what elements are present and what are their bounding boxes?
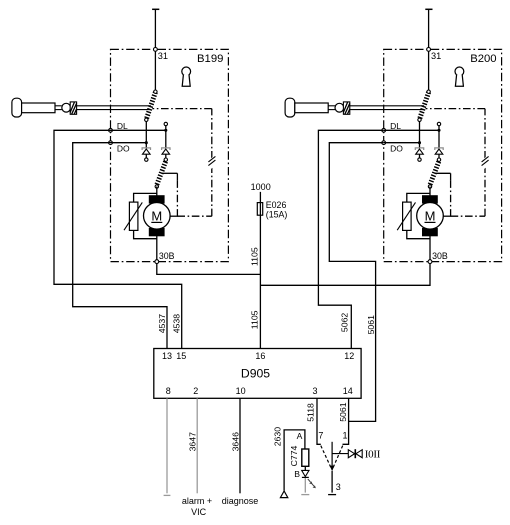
svg-text:10: 10 <box>236 386 246 396</box>
junction on DO wire <box>418 141 421 144</box>
wire C774 to LED <box>304 466 306 470</box>
junction on DO wire <box>145 141 148 144</box>
30B terminal circle <box>428 260 432 264</box>
contact diode right <box>165 130 167 148</box>
switch detent symbol line <box>332 453 348 455</box>
wire 1105 main: fuse to D905 pin 16 <box>259 192 261 349</box>
DO wire <box>384 142 420 144</box>
motor top lead <box>156 187 158 197</box>
pin 31 terminal circle <box>154 48 158 52</box>
LED emission arrows <box>308 479 316 488</box>
contact diode right <box>438 130 440 148</box>
svg-text:DO: DO <box>390 144 403 154</box>
svg-text:30B: 30B <box>159 251 175 261</box>
svg-text:30B: 30B <box>432 251 448 261</box>
linkage break symbol <box>478 157 491 170</box>
DL wire <box>384 129 440 131</box>
svg-text:12: 12 <box>344 351 354 361</box>
key cylinder assembly <box>12 98 22 117</box>
control unit D905 box <box>154 349 361 399</box>
contact diode left <box>415 148 423 150</box>
svg-text:5061: 5061 <box>366 315 376 334</box>
wire supply to B199 pin 31 <box>154 9 156 47</box>
svg-text:B199: B199 <box>197 53 223 65</box>
motor bottom lead <box>429 235 431 260</box>
junction on DL wire <box>437 129 440 132</box>
motor switch blade (hatched) <box>164 158 167 161</box>
DL terminal circle <box>109 128 113 132</box>
key symbol (keyhole) <box>182 67 191 76</box>
component C774 (resistor body) <box>302 449 309 466</box>
svg-text:A: A <box>297 431 303 441</box>
key cylinder hatched coupler <box>343 102 349 114</box>
terminal 3 end bar <box>328 494 336 496</box>
svg-text:16: 16 <box>255 351 265 361</box>
wire blade to DL/DO column <box>145 121 147 148</box>
motor M with brushes <box>423 196 438 203</box>
svg-text:15: 15 <box>176 351 186 361</box>
wire from pin 14 of D905 <box>343 398 349 444</box>
LED bottom lead (gray) <box>304 478 306 493</box>
wire 1105: B200 30B down to fuse node <box>260 264 430 286</box>
DO terminal circle <box>109 141 113 145</box>
svg-text:M: M <box>425 209 436 224</box>
wire pin31 to switch blade <box>154 51 156 90</box>
svg-text:3: 3 <box>312 386 317 396</box>
linkage break symbol <box>205 157 218 170</box>
wire 4537: B199 DO to D905 pin 13 <box>73 143 167 349</box>
svg-text:31: 31 <box>158 51 168 61</box>
svg-text:C774: C774 <box>289 445 299 466</box>
svg-text:3647: 3647 <box>187 432 197 451</box>
wire 4538: B199 DL to D905 pin 15 <box>54 130 182 348</box>
svg-text:1000: 1000 <box>251 182 271 192</box>
pin 8 wire end bar <box>164 494 171 496</box>
LED lead end bar <box>301 494 309 496</box>
svg-text:1105: 1105 <box>250 310 260 329</box>
key cylinder assembly <box>285 98 295 117</box>
lock unit B200 outer housing dash-dot box <box>384 49 502 261</box>
30B terminal circle <box>155 260 159 264</box>
svg-text:3: 3 <box>336 482 341 492</box>
junction on DL wire <box>164 129 167 132</box>
svg-text:VIC: VIC <box>191 507 207 517</box>
svg-text:B: B <box>294 469 300 479</box>
wire 5062: B200 DL to D905 pin 12 <box>318 130 383 348</box>
switch actuator stem with arrow <box>331 442 333 466</box>
lock unit B199 outer housing dash-dot box <box>111 49 229 261</box>
svg-text:M: M <box>151 209 162 224</box>
svg-text:8: 8 <box>166 386 171 396</box>
wire 3646 from pin 10 to diagnose <box>239 398 241 493</box>
supply terminal bar right <box>425 8 432 10</box>
wire pin31 to switch blade <box>428 51 430 90</box>
svg-text:4537: 4537 <box>157 314 167 333</box>
svg-text:D905: D905 <box>241 366 270 380</box>
DL wire <box>111 129 167 131</box>
svg-text:5061: 5061 <box>338 402 348 421</box>
svg-text:alarm +: alarm + <box>182 496 212 506</box>
LED diode of C774 <box>302 470 309 476</box>
mechanical linkage (dash-dot) <box>162 172 178 174</box>
key cylinder hatched coupler <box>70 102 76 114</box>
fuse E026 (15A) <box>257 203 262 216</box>
DO wire <box>111 142 147 144</box>
lock rod (double line) <box>350 105 424 107</box>
switch movable contact from 7 (dashed) <box>321 446 332 469</box>
wire supply to B200 pin 31 <box>428 9 430 47</box>
lock rod (double line) <box>77 105 151 107</box>
wire 5061: B200 DO to D905 pin 14 <box>329 143 383 422</box>
svg-text:5118: 5118 <box>306 403 316 422</box>
wire 3647 from pin 2 to alarm/VIC <box>196 398 198 493</box>
svg-text:E026: E026 <box>266 200 287 210</box>
DL terminal circle <box>382 128 386 132</box>
supply terminal bar left <box>152 8 159 10</box>
svg-text:1: 1 <box>342 431 347 441</box>
motor bottom lead <box>156 235 158 260</box>
wire 1105: B199 30B down to fuse node <box>157 264 261 275</box>
mechanical linkage (dash-dot) <box>435 172 451 174</box>
switch movable contact from 1 (dashed) <box>333 446 343 469</box>
wire from switch common to terminal 3 <box>331 471 333 493</box>
DL stub terminal circle <box>438 126 440 131</box>
wire blade to DL/DO column <box>419 121 421 148</box>
key symbol (keyhole) <box>455 67 464 76</box>
svg-text:3646: 3646 <box>230 432 240 451</box>
svg-text:I0II: I0II <box>365 449 381 461</box>
svg-text:diagnose: diagnose <box>222 496 259 506</box>
svg-text:1105: 1105 <box>250 247 260 266</box>
svg-text:(15A): (15A) <box>266 209 288 219</box>
wire from pin 8 (gray, n.c.) <box>166 398 168 493</box>
motor switch blade (hatched) <box>437 158 440 161</box>
svg-text:DO: DO <box>117 144 130 154</box>
thermistor (PTC) <box>407 193 430 202</box>
ground symbol <box>280 491 287 498</box>
wire 2630 to ground <box>284 430 305 491</box>
svg-text:31: 31 <box>431 51 441 61</box>
svg-text:2630: 2630 <box>273 427 283 446</box>
svg-text:5062: 5062 <box>340 313 350 332</box>
thermistor (PTC) <box>134 193 157 202</box>
motor top lead <box>429 187 431 197</box>
svg-text:7: 7 <box>318 431 323 441</box>
wire 5118 from pin 3 of D905 <box>317 398 321 444</box>
svg-text:13: 13 <box>162 351 172 361</box>
svg-text:14: 14 <box>343 386 353 396</box>
switch blade 31-DL (hatched) <box>420 92 429 119</box>
contact diode left <box>142 148 150 150</box>
svg-text:4538: 4538 <box>172 314 182 333</box>
switch blade 31-DL (hatched) <box>146 92 155 119</box>
detent symbol (position latch) <box>348 450 354 458</box>
DL stub terminal circle <box>165 126 167 131</box>
pin 31 terminal circle <box>427 48 431 52</box>
svg-text:2: 2 <box>193 386 198 396</box>
DO terminal circle <box>382 141 386 145</box>
svg-text:B200: B200 <box>470 53 496 65</box>
motor M with brushes <box>149 196 164 203</box>
